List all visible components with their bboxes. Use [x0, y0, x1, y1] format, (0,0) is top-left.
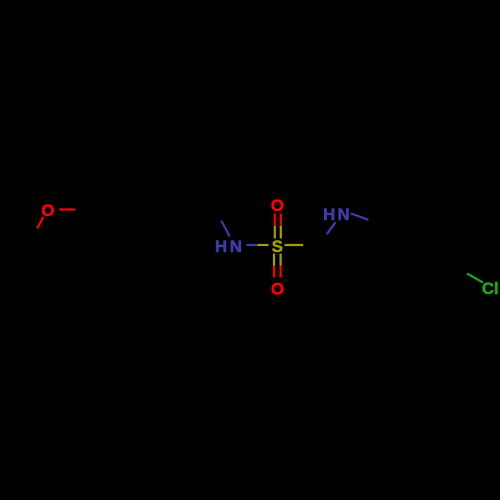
svg-text:H: H	[323, 205, 335, 224]
bond O1-C(aryl) red half (horizontal)	[59, 208, 75, 210]
double bond S1=O3 line a sulfur half	[273, 254, 275, 266]
double bond S1=O3 line b sulfur half	[280, 254, 282, 266]
bond CH2-N1 blue half (diagonal)	[221, 221, 229, 237]
bond N2-C(aryl) blue half (to right)	[351, 213, 369, 219]
double bond S1=O2 line a sulfur half	[274, 226, 276, 239]
double bond S1=O2 line b oxygen half	[280, 214, 282, 227]
double bond S1=O2 line a oxygen half	[274, 214, 276, 227]
bond S1-C right sulfur half	[285, 244, 304, 246]
svg-text:N: N	[338, 205, 350, 224]
double bond S1=O3 line b oxygen half	[280, 266, 282, 278]
bond C-N2 blue half (diagonal down-left)	[327, 222, 336, 234]
double bond S1=O3 line a oxygen half	[273, 266, 275, 278]
svg-text:O: O	[271, 196, 284, 215]
svg-text:S: S	[272, 237, 283, 256]
bond N1-S sulfur half	[258, 244, 269, 246]
svg-text:H: H	[215, 237, 227, 256]
svg-text:Cl: Cl	[482, 279, 499, 298]
bond C(aryl)-Cl1 green half	[467, 274, 483, 283]
bond O1-CH3 red half (diagonal)	[37, 217, 43, 229]
double bond S1=O2 line b sulfur half	[280, 226, 282, 239]
svg-text:N: N	[230, 237, 242, 256]
bond N1-S blue half	[246, 244, 257, 246]
svg-text:O: O	[271, 279, 284, 298]
